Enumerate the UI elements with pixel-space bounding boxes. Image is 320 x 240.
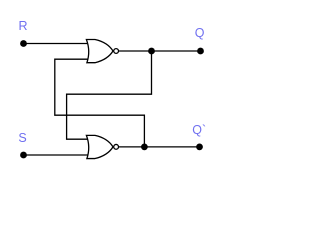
svg-text:Q: Q	[195, 26, 205, 40]
wire feedback Q to U2 pin 1	[67, 51, 152, 139]
junction node Q'	[141, 143, 148, 150]
svg-text:S: S	[18, 131, 26, 145]
wire R input to U1 pin 1	[24, 43, 89, 45]
svg-text:R: R	[19, 19, 28, 33]
wire U1 output to Q	[119, 50, 201, 52]
wire feedback Q' to U1 pin 2	[55, 59, 145, 147]
wire S input to U2 pin 2	[24, 154, 89, 156]
input terminal R	[20, 40, 27, 47]
output terminal Q'	[196, 143, 203, 150]
output terminal Q	[197, 48, 204, 55]
input terminal S	[20, 152, 27, 159]
wire U2 output to Q'	[119, 146, 200, 148]
svg-text:Q`: Q`	[192, 123, 206, 137]
NOR gate U2	[86, 135, 118, 158]
junction node Q	[148, 48, 155, 55]
NOR gate U1	[86, 40, 118, 63]
